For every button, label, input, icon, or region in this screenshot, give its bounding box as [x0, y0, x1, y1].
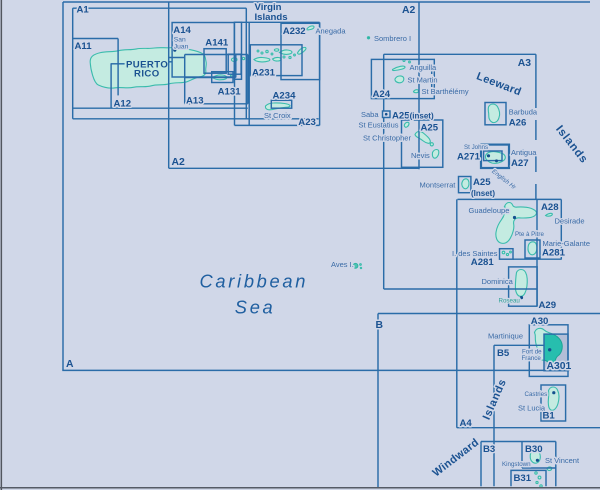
islet near Culebra [242, 57, 244, 59]
svg-text:Barbuda: Barbuda [509, 108, 538, 117]
svg-text:St Barthélémy: St Barthélémy [422, 87, 469, 96]
island Jost van Dyke [274, 49, 278, 51]
box B5 top edge [494, 344, 544, 346]
box A12 top tick [111, 63, 125, 65]
box A231 [250, 45, 302, 76]
narrow tall box [234, 22, 241, 79]
box A11 bottom edge [73, 107, 248, 109]
svg-text:A2: A2 [402, 5, 416, 16]
town dot Pointe a Pitre [513, 216, 516, 219]
svg-text:I. des Saintes: I. des Saintes [452, 249, 498, 258]
svg-text:A281: A281 [471, 257, 495, 268]
svg-text:B3: B3 [483, 444, 495, 455]
top edge line of region A [63, 1, 590, 3]
town dot Kingstown [536, 459, 539, 462]
box A14 [172, 23, 234, 78]
svg-text:B5: B5 [497, 348, 510, 359]
box B1 St Lucia [541, 385, 566, 421]
box Montserrat A25 inset [459, 177, 471, 193]
svg-text:Nevis: Nevis [411, 151, 430, 160]
box B30 left edge [521, 442, 523, 469]
svg-text:A281: A281 [542, 247, 566, 258]
box A3 left edge upper [383, 54, 385, 111]
island St Barthelemy [414, 90, 419, 93]
box A232 [281, 23, 320, 79]
town dot Fort de France [548, 348, 551, 351]
svg-text:B: B [376, 320, 384, 331]
island St Thomas [254, 57, 270, 62]
box A28 top edge [458, 198, 562, 200]
map frame bottom border [0, 487, 600, 489]
svg-text:A13: A13 [186, 95, 204, 106]
svg-text:B30: B30 [525, 444, 543, 455]
box A13 tick upper [169, 57, 185, 59]
svg-text:A301: A301 [547, 361, 572, 372]
dot Sombrero marker [368, 37, 370, 39]
svg-text:Desirade: Desirade [555, 217, 585, 226]
island St Kitts [415, 131, 430, 143]
box A3 left edge lower [383, 118, 385, 290]
box A3 right edge solid upper [535, 54, 537, 88]
svg-text:Montserrat: Montserrat [420, 181, 457, 190]
box A23 bottom edge [235, 124, 320, 126]
svg-text:Anegada: Anegada [316, 26, 347, 35]
box A301 border [544, 334, 568, 371]
svg-text:Sombrero I: Sombrero I [374, 34, 411, 43]
svg-text:France: France [522, 355, 542, 362]
svg-text:St Croix: St Croix [264, 111, 291, 120]
svg-text:St Vincent: St Vincent [545, 456, 580, 465]
box A3 right edge dashed [535, 88, 537, 199]
dashed inset divider in A24 [431, 64, 433, 93]
svg-text:RICO: RICO [134, 68, 160, 79]
svg-text:A28: A28 [541, 202, 559, 213]
box A1 right edge (band line 1) [245, 8, 247, 119]
island St Martin [395, 76, 404, 83]
box A13 tick lower [169, 61, 172, 63]
svg-text:Aves I.: Aves I. [331, 260, 354, 269]
svg-text:Martinique: Martinique [488, 332, 523, 341]
island Anguilla [392, 66, 405, 70]
box A2 right edge [418, 2, 420, 169]
island Vieques [213, 75, 228, 80]
long vertical A28 left / A4 left [456, 199, 458, 427]
svg-text:A141: A141 [205, 38, 229, 49]
box A26 Barbuda [485, 103, 506, 125]
island St Lucia [548, 387, 559, 410]
town dot Roseau [520, 296, 523, 299]
box A13 inner shelf [185, 55, 236, 78]
island Guadeloupe [496, 203, 537, 244]
island Bequia [547, 467, 552, 471]
island Virgin Gorda [298, 47, 306, 54]
box A25 [402, 120, 443, 167]
box A23 right edge [319, 22, 321, 125]
island St John [273, 57, 282, 61]
svg-text:Caribbean: Caribbean [200, 270, 309, 291]
box B3 top edge [481, 441, 556, 443]
box A bottom edge [62, 369, 569, 371]
svg-text:St Martin: St Martin [408, 76, 438, 85]
box A12 left edge [110, 63, 112, 108]
svg-text:Anguilla: Anguilla [410, 63, 438, 72]
svg-text:A271: A271 [457, 151, 481, 162]
svg-text:A3: A3 [518, 58, 532, 69]
island Aves (ring) [353, 263, 358, 268]
svg-text:Marie-Galante: Marie-Galante [543, 239, 591, 248]
islet east of Vieques [230, 74, 235, 77]
island Sombrero [367, 37, 369, 39]
box A11 right edge [117, 39, 119, 96]
island Barbuda [488, 104, 499, 123]
svg-text:Islands: Islands [255, 12, 288, 23]
box A23 left edge [234, 79, 236, 125]
box A3 bottom edge [384, 288, 537, 290]
svg-text:A30: A30 [531, 316, 549, 327]
island St Croix [265, 103, 290, 110]
town dot English Harbour [495, 159, 498, 162]
islets Les Saintes [502, 251, 505, 254]
box B top edge [378, 313, 600, 315]
svg-text:A12: A12 [114, 99, 132, 110]
box A3/A28 right edge lower [536, 199, 538, 306]
box A234 [271, 100, 291, 108]
svg-text:A1: A1 [77, 5, 90, 16]
town dot St Johns [487, 154, 490, 157]
box A27 Antigua thick [481, 145, 509, 168]
svg-text:A11: A11 [75, 41, 93, 52]
box A131 upper small [228, 54, 241, 74]
island Montserrat [462, 179, 469, 189]
svg-text:Antigua: Antigua [511, 148, 537, 157]
svg-text:St Lucia: St Lucia [518, 403, 546, 412]
svg-text:Juan: Juan [174, 43, 189, 50]
box A29 Dominica [509, 267, 537, 306]
box B30 bottom edge [522, 467, 556, 469]
box A11 top edge [73, 38, 118, 40]
box A24 [371, 59, 434, 98]
small cays VI [261, 52, 263, 54]
svg-text:Kingstown: Kingstown [502, 461, 531, 468]
Grenadines islets [535, 472, 537, 474]
box A271 inner [484, 151, 502, 161]
town dot San Juan [173, 49, 176, 52]
island Anegada [307, 26, 315, 30]
island Marie-Galante [528, 242, 537, 255]
svg-text:Dominica: Dominica [482, 277, 514, 286]
svg-text:St Johns: St Johns [464, 144, 488, 151]
svg-text:A231: A231 [252, 68, 276, 79]
svg-text:A234: A234 [273, 91, 297, 102]
svg-text:A2: A2 [172, 157, 186, 168]
svg-text:B31: B31 [514, 473, 532, 484]
svg-text:St Christopher: St Christopher [363, 133, 411, 142]
box A4 bottom edge [457, 427, 600, 429]
box A13 rect [185, 55, 248, 104]
town dot Castries [552, 391, 555, 394]
svg-text:(Inset): (Inset) [471, 189, 495, 198]
islet Booby [430, 143, 433, 146]
svg-text:A: A [66, 359, 74, 370]
island St Eustatius [404, 122, 409, 127]
island Culebra [231, 58, 237, 62]
box A23 top edge [234, 21, 319, 23]
island Nevis [432, 150, 438, 159]
box B left edge [377, 314, 379, 488]
A301 highlight overlay [535, 328, 569, 370]
A281 shelf line [513, 258, 562, 260]
island Martinique (pale base) [535, 328, 563, 363]
island Dominica [515, 270, 527, 297]
svg-text:A24: A24 [373, 89, 391, 100]
svg-text:A4: A4 [460, 418, 473, 429]
box right of A28 vertical [560, 199, 562, 259]
band line 2 / box A23 left outer [248, 22, 250, 125]
inset icon box near Saba [383, 111, 391, 118]
box A1 bottom edge [73, 118, 319, 120]
box B3 left edge [480, 442, 482, 487]
svg-text:A232: A232 [283, 26, 306, 37]
box A281 Marie-Galante [525, 240, 540, 258]
svg-text:A26: A26 [509, 118, 527, 129]
town dot Saba in icon [385, 113, 388, 116]
svg-text:St Eustatius: St Eustatius [359, 120, 399, 129]
box B31 [511, 470, 546, 486]
box A1 left edge [72, 8, 74, 119]
svg-text:Castries: Castries [525, 391, 548, 398]
svg-text:Sea: Sea [235, 297, 276, 318]
island Tortola [280, 50, 293, 54]
svg-text:Saba: Saba [361, 110, 379, 119]
map frame left border [1, 0, 2, 490]
box B3 right edge [555, 442, 557, 487]
island St Vincent [530, 450, 540, 463]
box A131 lower small [212, 72, 233, 83]
svg-text:A27: A27 [511, 158, 529, 169]
box A281 Les Saintes [500, 249, 514, 260]
svg-text:A25: A25 [473, 177, 491, 188]
svg-text:A25: A25 [421, 122, 439, 133]
svg-text:A23: A23 [298, 117, 316, 128]
box A141 [204, 49, 226, 73]
box A2 left edge [168, 2, 170, 168]
svg-text:A131: A131 [218, 86, 242, 97]
svg-text:A14: A14 [173, 25, 191, 36]
dog islets [403, 60, 405, 62]
island Antigua [485, 152, 505, 164]
box A2 bottom edge [169, 167, 419, 169]
box A3 top edge [384, 53, 536, 55]
vertical B5/B3 left long [493, 345, 495, 486]
svg-text:Guadeloupe: Guadeloupe [469, 206, 510, 215]
svg-text:Roseau: Roseau [499, 297, 521, 304]
svg-text:Pte à Pitre: Pte à Pitre [515, 231, 544, 238]
box A left edge [62, 2, 64, 370]
svg-text:A29: A29 [539, 300, 557, 311]
box A30 [529, 325, 568, 377]
island Desirade [546, 213, 553, 216]
box A1 top edge [73, 7, 247, 9]
island Puerto Rico [90, 47, 206, 88]
